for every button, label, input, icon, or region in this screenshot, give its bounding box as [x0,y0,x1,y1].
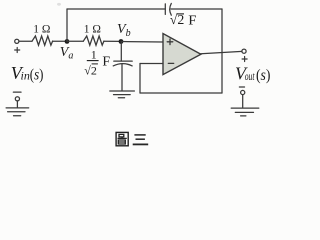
output terminal [242,49,246,53]
op-amp plus input sign [167,39,173,45]
svg-text:(s): (s) [256,67,270,84]
scan smudge artifact [57,3,61,6]
resistor R1 [32,36,53,45]
resistor R2 [83,36,104,45]
caption glyph san (three) [133,135,149,145]
label Vin(s) [11,63,44,83]
node Vb [119,39,124,44]
wire op-amp output [201,51,242,53]
wire Va up to top feedback [66,9,68,41]
label Vout(s) [235,64,270,85]
wire feedback left vertical [139,64,141,94]
wire capacitor C1 to right vertical [171,8,222,10]
svg-text:F: F [102,54,110,69]
input minus dash [13,91,21,93]
capacitor C1 right curved plate [170,3,172,15]
capacitor C1 left plate [164,4,166,15]
wire top run to capacitor C1 [67,8,165,10]
capacitor C2 bottom curved plate [113,64,132,66]
wire feedback bottom run [140,92,222,94]
input terminal [15,39,19,43]
svg-text:Va: Va [60,45,74,62]
wire right vertical feedback [221,9,223,93]
wire Vb down to capacitor C2 [120,42,122,62]
svg-text:in: in [21,69,30,83]
output plus sign [242,57,247,62]
svg-text:1: 1 [91,48,97,62]
svg-text:(s): (s) [30,66,44,83]
svg-text:√2: √2 [84,63,97,77]
svg-text:1 Ω: 1 Ω [84,23,101,35]
op-amp U1 [163,34,201,75]
svg-text:Vb: Vb [117,22,131,39]
input ground terminal circle [15,97,19,101]
output ground terminal circle [241,90,245,94]
output ground [231,95,259,116]
output minus dash [239,86,244,88]
op-amp minus input sign [168,62,173,64]
wire Vb to op-amp plus input [121,41,163,44]
capacitor C2 top plate [114,60,132,62]
input ground [6,101,29,116]
wire Va to R2 [67,40,83,42]
wire R2 to node Vb [104,40,121,42]
wire input to R1 [19,40,32,42]
svg-text:√2: √2 [170,12,185,27]
node Va [65,39,70,44]
caption glyph tu (figure) [116,132,128,145]
wire R1 to node Va [53,40,67,42]
wire capacitor C2 to ground [121,64,123,90]
input plus sign [15,48,20,53]
svg-text:out: out [245,69,255,83]
svg-text:1 Ω: 1 Ω [33,23,50,35]
svg-text:F: F [188,13,196,28]
wire op-amp minus input left [140,63,163,65]
ground under C2 [110,91,135,98]
